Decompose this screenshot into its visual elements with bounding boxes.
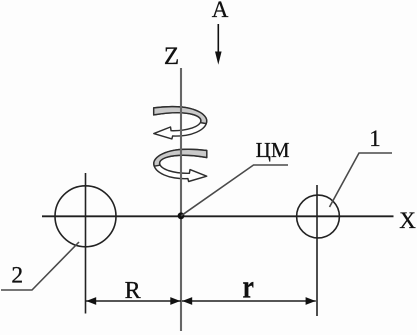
- svg-text:ЦМ: ЦМ: [256, 138, 290, 162]
- svg-text:2: 2: [11, 263, 23, 289]
- svg-text:A: A: [212, 0, 229, 22]
- svg-text:Z: Z: [164, 43, 179, 70]
- svg-text:r: r: [242, 270, 253, 306]
- svg-text:R: R: [125, 278, 141, 304]
- svg-text:1: 1: [369, 126, 381, 151]
- svg-text:X: X: [399, 208, 416, 233]
